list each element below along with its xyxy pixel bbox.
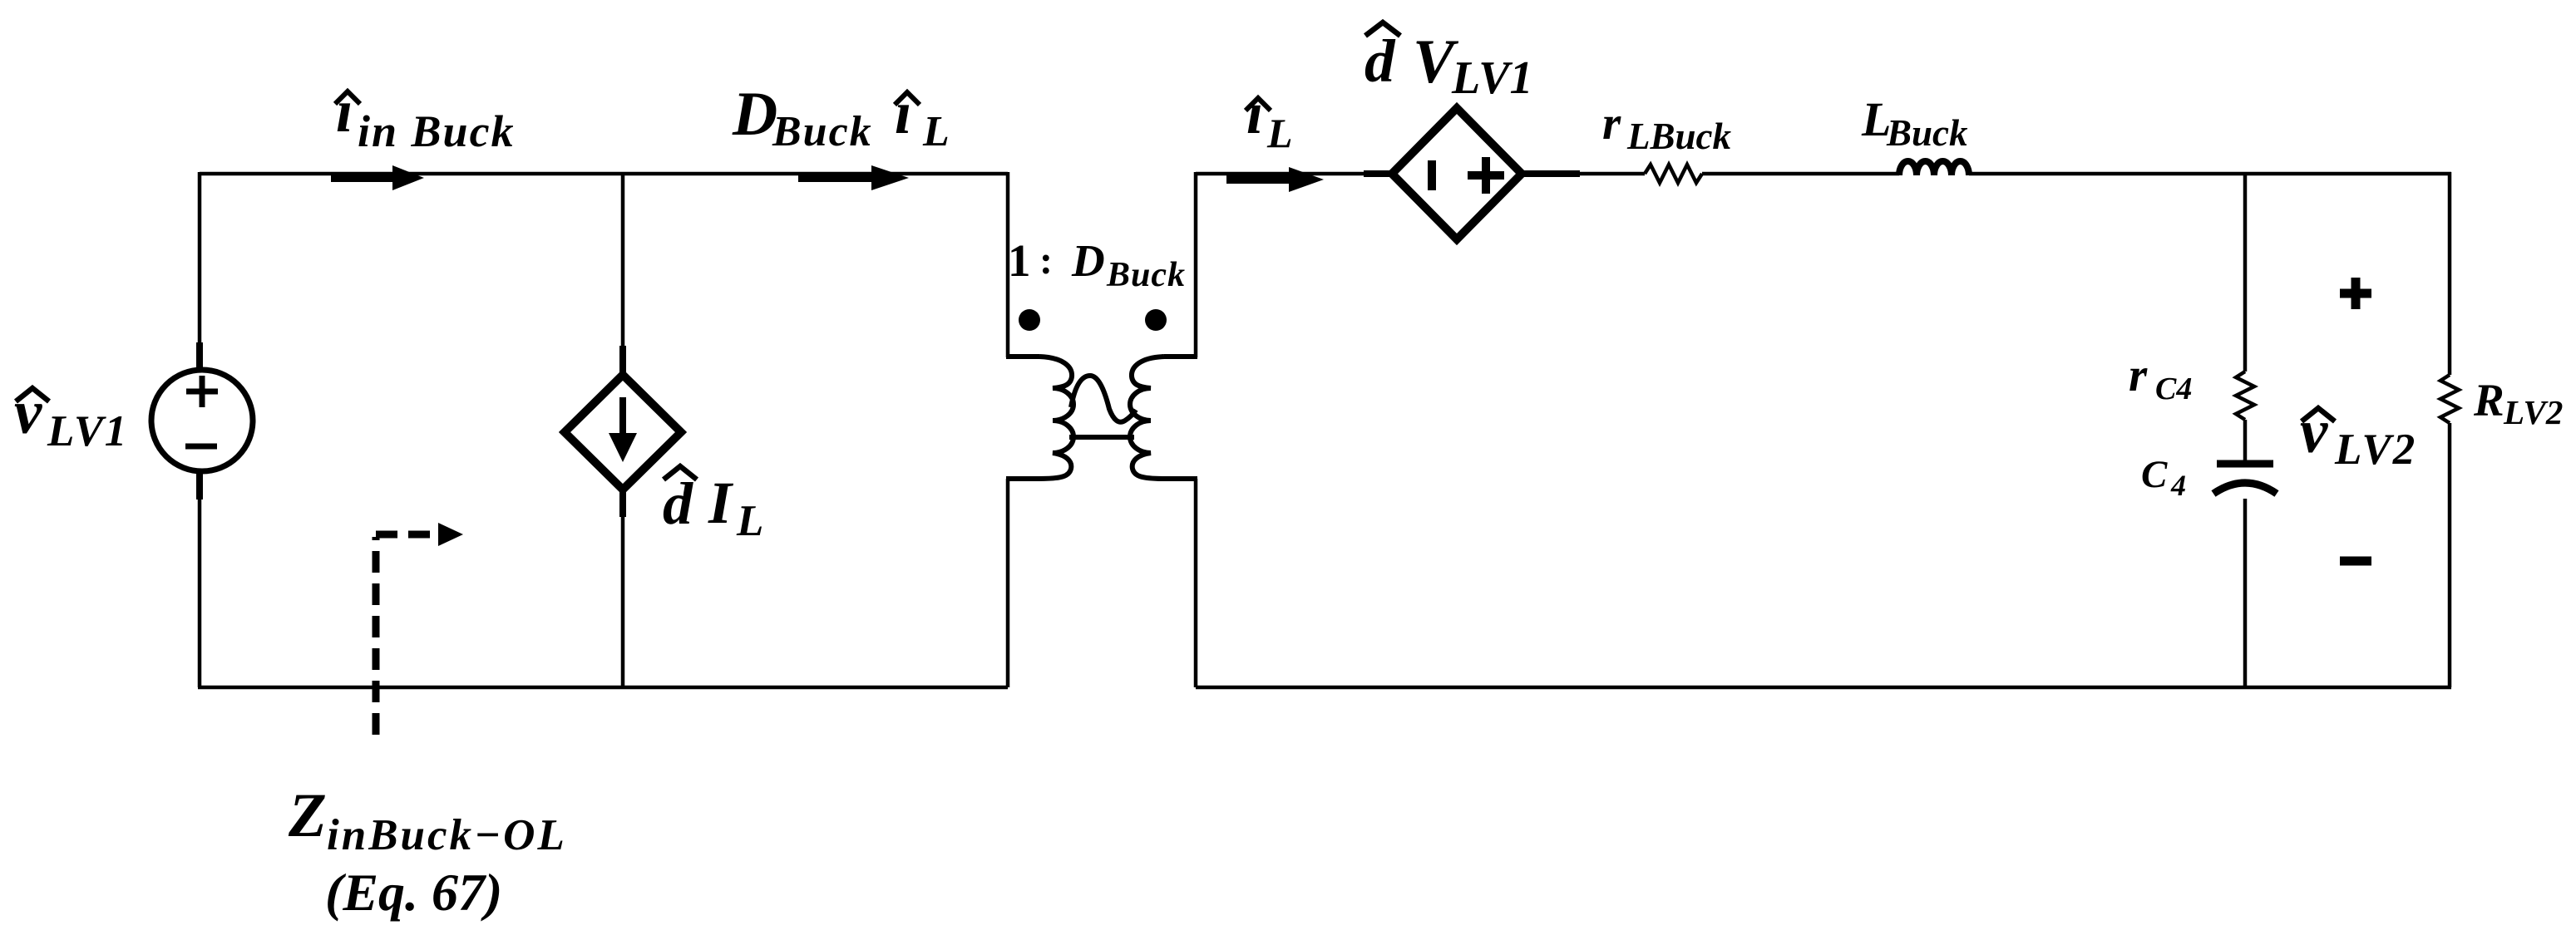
wire stub above diamond (thick) — [619, 346, 626, 376]
minus sign inside source — [185, 444, 217, 450]
transformer left bottom vertical — [1006, 479, 1010, 687]
svg-text:v: v — [2300, 397, 2328, 466]
capacitor C4 top plate — [2217, 460, 2273, 468]
svg-text:C4: C4 — [2155, 372, 2192, 406]
label r_C4 — [2129, 349, 2192, 406]
wire left circuit bottom rail — [198, 686, 1008, 690]
wire secondary right vertical up to top rail — [1194, 172, 1198, 357]
svg-text:Buck: Buck — [772, 108, 873, 155]
svg-text:r: r — [1602, 97, 1621, 150]
label R_LV2 — [2473, 375, 2563, 431]
wire top rail inductor to right corner — [1969, 172, 2451, 176]
wire current source branch vertical top — [621, 174, 625, 376]
current arrow D_Buck i_L — [798, 165, 909, 190]
label Z_inBuck-OL — [288, 781, 567, 859]
label d V_LV1 — [1364, 22, 1532, 104]
resistor r_LBuck — [1645, 165, 1702, 183]
svg-text:L: L — [1266, 110, 1293, 156]
svg-text:v: v — [14, 378, 42, 447]
wire left vertical from top rail to source — [198, 172, 202, 369]
wire stub right of diamond source (thick) — [1519, 170, 1580, 177]
svg-text:ı: ı — [336, 77, 353, 145]
transformer secondary winding — [1130, 357, 1164, 479]
label i_in_Buck — [335, 77, 516, 156]
svg-text:I: I — [708, 470, 734, 536]
minus bar inside diamond — [1428, 160, 1436, 190]
svg-text:D: D — [732, 80, 777, 149]
resistor r_C4 — [2236, 372, 2254, 420]
label 1 : D_Buck — [1008, 235, 1186, 294]
wire stub above source (thick) — [196, 342, 203, 371]
label C_4 — [2141, 453, 2186, 502]
wire right circuit top rail segment to diamond — [1196, 172, 1374, 176]
wire top rail diamond to resistor — [1577, 172, 1645, 176]
transformer middle squiggle — [1071, 376, 1136, 422]
inductor L_Buck — [1899, 161, 1969, 175]
label v_LV2 — [2300, 397, 2416, 474]
current arrow i_L — [1226, 167, 1324, 192]
svg-text:inBuck−OL: inBuck−OL — [327, 811, 567, 859]
svg-text:L: L — [736, 497, 763, 545]
voltage source V_LV1 circle — [151, 370, 253, 471]
transformer phasing dot secondary — [1145, 309, 1167, 331]
svg-text:r: r — [2129, 349, 2148, 401]
svg-text:Buck: Buck — [1106, 256, 1186, 294]
current source arrow inside diamond — [609, 397, 637, 462]
wire secondary right vertical down to bottom rail — [1194, 479, 1198, 687]
transformer middle straight link — [1069, 435, 1134, 440]
svg-text:Z: Z — [288, 781, 327, 850]
wire capacitor branch upper — [2243, 172, 2248, 372]
svg-text:LV1: LV1 — [1451, 52, 1532, 104]
wire current source branch vertical bottom — [621, 489, 625, 687]
wire stub below source (thick) — [196, 471, 203, 499]
transformer secondary bottom lead — [1164, 476, 1197, 481]
wire stub left of diamond source (thick) — [1364, 170, 1395, 177]
svg-text:1: 1 — [1008, 235, 1031, 286]
wire right circuit bottom rail — [1196, 686, 2451, 690]
transformer primary winding — [1039, 357, 1073, 479]
svg-text:in Buck: in Buck — [358, 106, 516, 156]
dashed arrow Z_inBuck-OL probe — [376, 523, 463, 735]
transformer primary bottom lead — [1006, 476, 1039, 481]
wire capacitor branch lower — [2243, 499, 2248, 687]
svg-text:Buck: Buck — [1886, 112, 1968, 154]
label d I_L — [663, 466, 763, 545]
svg-text:d: d — [663, 470, 693, 537]
plus sign inside diamond — [1468, 157, 1504, 194]
label r_LBuck — [1602, 97, 1732, 157]
svg-text:ı: ı — [895, 79, 911, 146]
svg-text:LV2: LV2 — [2334, 426, 2416, 474]
label L_Buck — [1861, 92, 1968, 154]
wire left circuit top rail — [200, 172, 1008, 176]
transformer primary top lead — [1006, 354, 1039, 359]
dependent voltage source d V_LV1 diamond — [1392, 108, 1522, 239]
wire left vertical from source to bottom rail — [198, 471, 202, 687]
resistor R_LV2 — [2440, 375, 2459, 423]
svg-text:D: D — [1071, 235, 1105, 286]
svg-text::: : — [1039, 239, 1053, 283]
transformer secondary top lead — [1164, 354, 1197, 359]
label i_L — [1246, 80, 1293, 156]
wire right edge vertical upper — [2448, 172, 2452, 375]
wire right edge vertical lower — [2448, 423, 2452, 687]
svg-text:L: L — [922, 108, 950, 155]
label v_LV1 — [14, 378, 128, 455]
label D_Buck i_L — [732, 79, 950, 155]
svg-text:LBuck: LBuck — [1626, 116, 1732, 157]
svg-text:d: d — [1364, 27, 1396, 95]
minus sign output polarity — [2340, 557, 2371, 566]
capacitor C4 bottom plate (curved) — [2213, 483, 2277, 494]
transformer phasing dot primary — [1019, 309, 1040, 331]
current arrow i_in_Buck — [331, 165, 424, 190]
svg-text:R: R — [2473, 375, 2504, 426]
wire top rail resistor to inductor — [1702, 172, 1899, 176]
svg-text:LV2: LV2 — [2503, 393, 2563, 431]
dependent current source d I_L diamond — [565, 375, 681, 490]
svg-text:4: 4 — [2170, 469, 2186, 502]
wire between resistor and capacitor — [2243, 420, 2248, 462]
svg-text:ı: ı — [1246, 80, 1263, 146]
transformer step down left vertical — [1006, 172, 1010, 357]
plus sign output polarity — [2340, 278, 2371, 309]
svg-text:C: C — [2141, 453, 2168, 496]
plus sign inside source — [186, 376, 218, 407]
wire stub below diamond (thick) — [619, 489, 626, 517]
svg-text:LV1: LV1 — [47, 407, 128, 455]
svg-text:(Eq. 67): (Eq. 67) — [325, 863, 502, 922]
